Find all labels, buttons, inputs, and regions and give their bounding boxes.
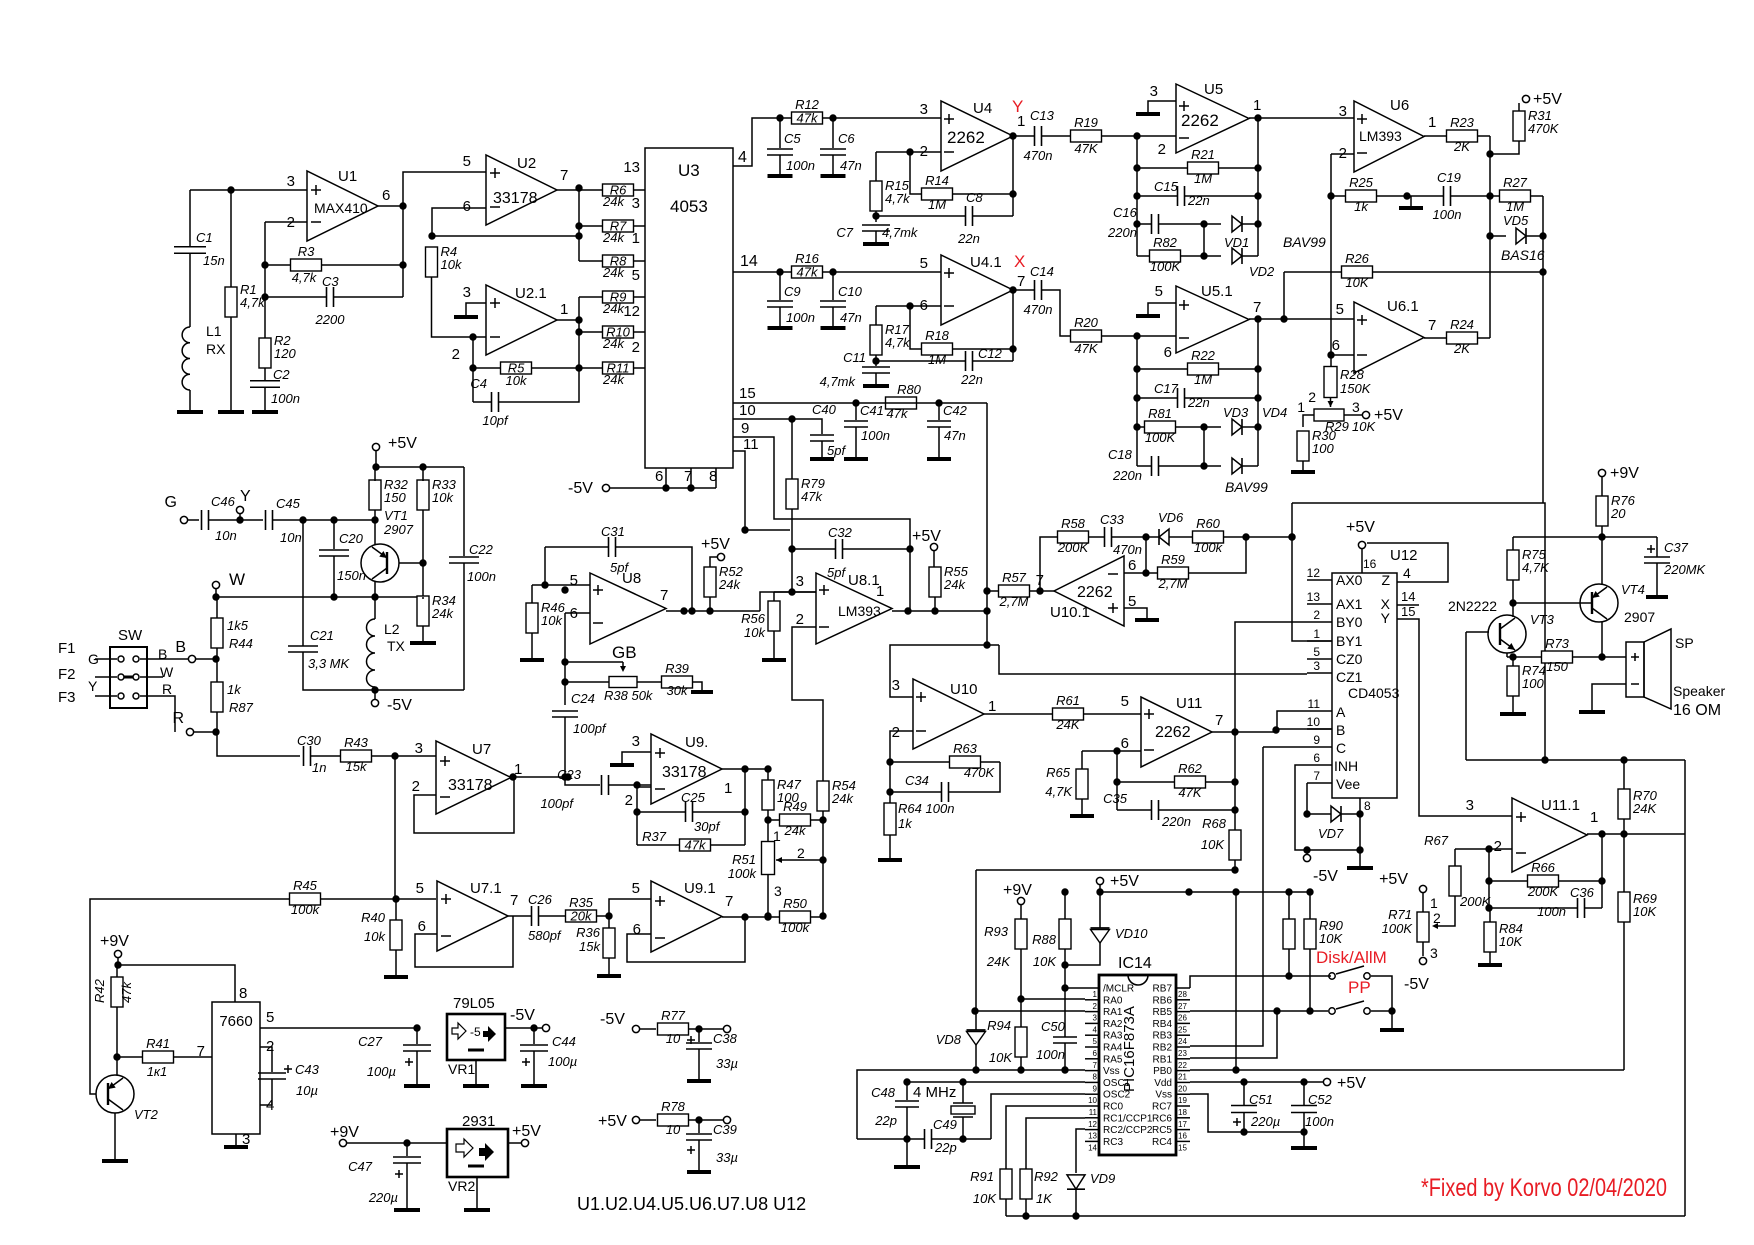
svg-text:5pf: 5pf	[827, 565, 846, 580]
resistor R39	[662, 676, 693, 688]
svg-text:580pf: 580pf	[528, 928, 562, 943]
op-amp U4 2262	[941, 101, 1013, 171]
resistor R36	[603, 928, 615, 958]
svg-text:7: 7	[1253, 299, 1261, 316]
op-amp U5.1 2262	[1176, 286, 1249, 353]
capacitor C44	[533, 1028, 535, 1044]
capacitor C32	[835, 539, 837, 559]
svg-text:R27: R27	[1503, 175, 1528, 190]
svg-text:C6: C6	[838, 131, 855, 146]
svg-text:VD3: VD3	[1223, 405, 1249, 420]
resistor R4	[426, 247, 438, 277]
svg-text:2931: 2931	[462, 1113, 495, 1130]
svg-text:24K: 24K	[1632, 801, 1657, 816]
wire Y pin to U11.1	[1397, 619, 1512, 816]
svg-text:C34: C34	[905, 773, 929, 788]
svg-text:1k: 1k	[227, 682, 242, 697]
svg-text:+5V: +5V	[598, 1113, 627, 1130]
capacitor C38	[698, 1029, 700, 1042]
svg-text:2: 2	[892, 724, 900, 741]
resistor R33	[417, 480, 429, 510]
svg-text:47K: 47K	[1074, 341, 1098, 356]
svg-text:16 OM: 16 OM	[1673, 702, 1721, 719]
transistor VT2	[96, 1075, 134, 1113]
svg-text:U2: U2	[517, 155, 536, 172]
svg-text:3: 3	[1466, 797, 1474, 814]
resistor R42	[111, 977, 123, 1007]
wire +5V row	[976, 869, 1235, 871]
voltage regulator VR1 79L05	[447, 1014, 505, 1060]
resistor R11	[603, 362, 634, 374]
svg-text:R65: R65	[1046, 765, 1071, 780]
svg-text:47K: 47K	[1074, 141, 1098, 156]
switch SW	[110, 647, 147, 708]
svg-text:+9V: +9V	[330, 1124, 359, 1141]
capacitor C5	[779, 118, 781, 148]
svg-text:C23: C23	[557, 767, 582, 782]
resistor R22	[1188, 363, 1219, 375]
wire U1 pin2	[265, 221, 307, 223]
svg-text:U11: U11	[1176, 695, 1202, 712]
svg-text:W: W	[229, 570, 245, 589]
svg-text:U8: U8	[622, 570, 641, 587]
svg-text:CZ1: CZ1	[1336, 669, 1363, 685]
svg-text:Y: Y	[88, 678, 98, 694]
svg-text:+5V: +5V	[1379, 871, 1408, 888]
resistor R92	[1020, 1169, 1032, 1199]
svg-text:7: 7	[1017, 273, 1025, 290]
ground at U2.1 pin3	[466, 303, 486, 315]
svg-text:AX1: AX1	[1336, 596, 1363, 612]
svg-text:X: X	[1014, 252, 1025, 271]
svg-text:16: 16	[1178, 1132, 1187, 1141]
svg-text:20: 20	[1178, 1084, 1187, 1093]
svg-text:13: 13	[623, 159, 640, 176]
wire RC2 to VD9	[1076, 1129, 1085, 1173]
svg-text:R: R	[162, 681, 172, 697]
svg-text:R14: R14	[925, 173, 949, 188]
svg-text:100k: 100k	[728, 866, 758, 881]
svg-text:1M: 1M	[1506, 199, 1524, 214]
svg-text:U6: U6	[1390, 97, 1409, 114]
capacitor C1	[189, 190, 191, 247]
svg-text:RX: RX	[206, 341, 226, 357]
op-amp U9 33178	[651, 734, 722, 804]
svg-text:6: 6	[1332, 337, 1340, 354]
resistor R78	[658, 1114, 689, 1126]
svg-text:21: 21	[1178, 1073, 1187, 1082]
svg-text:RC6: RC6	[1152, 1113, 1172, 1124]
svg-text:24k: 24k	[602, 372, 625, 387]
resistor R27	[1500, 190, 1531, 202]
svg-text:VD6: VD6	[1158, 510, 1184, 525]
svg-text:C14: C14	[1030, 264, 1054, 279]
power +9V R76	[1598, 469, 1605, 476]
svg-text:3: 3	[774, 883, 782, 899]
svg-text:3: 3	[463, 284, 471, 301]
svg-text:MAX410: MAX410	[314, 200, 368, 216]
resistor R41	[143, 1051, 174, 1063]
svg-text:15k: 15k	[346, 759, 368, 774]
svg-text:3: 3	[632, 195, 640, 212]
svg-text:15: 15	[1178, 1143, 1187, 1152]
op-amp U10	[913, 679, 984, 749]
wire RX input top	[190, 189, 307, 191]
svg-text:12: 12	[1088, 1120, 1097, 1129]
svg-text:26: 26	[1178, 1014, 1187, 1023]
svg-text:R50: R50	[783, 896, 808, 911]
svg-text:100n: 100n	[861, 428, 890, 443]
wire R45 left	[90, 899, 290, 1094]
svg-text:100pf: 100pf	[573, 721, 607, 736]
svg-text:17: 17	[1178, 1120, 1187, 1129]
svg-text:RC3: RC3	[1103, 1137, 1123, 1148]
resistor R57	[999, 585, 1030, 597]
svg-text:47k: 47k	[119, 981, 134, 1003]
svg-text:470K: 470K	[1528, 121, 1560, 136]
resistor R6	[603, 184, 634, 196]
svg-text:U1: U1	[338, 168, 357, 185]
svg-text:9: 9	[741, 420, 749, 437]
svg-text:24: 24	[1178, 1037, 1187, 1046]
resistor R19	[1071, 130, 1102, 142]
svg-text:30k: 30k	[667, 683, 689, 698]
svg-text:470K: 470K	[964, 765, 996, 780]
wire U2.1 output node	[557, 319, 579, 321]
svg-text:R64: R64	[898, 801, 922, 816]
svg-text:7: 7	[197, 1043, 205, 1060]
wire VT4 base	[1513, 602, 1592, 604]
svg-text:6: 6	[1313, 751, 1320, 765]
svg-text:5: 5	[266, 1009, 274, 1026]
svg-text:RC7: RC7	[1152, 1102, 1172, 1113]
capacitor C27	[413, 1024, 420, 1031]
svg-text:C24: C24	[571, 691, 595, 706]
op-amp U10.1 2262 (mirrored)	[1054, 556, 1124, 626]
svg-text:1: 1	[560, 301, 568, 318]
svg-text:C37: C37	[1664, 540, 1689, 555]
wire RC0 to R91	[1006, 1106, 1085, 1169]
resistor R17	[870, 325, 882, 355]
svg-text:10n: 10n	[280, 530, 302, 545]
svg-text:5: 5	[1093, 1037, 1098, 1046]
svg-text:+5V: +5V	[1110, 873, 1139, 890]
wire RB5 row	[1190, 1010, 1310, 1012]
svg-text:Disk/AllM: Disk/AllM	[1316, 948, 1387, 967]
svg-text:100k: 100k	[1194, 540, 1224, 555]
svg-text:8: 8	[1093, 1073, 1098, 1082]
IC U12 CD4053	[1332, 573, 1397, 798]
svg-text:7: 7	[1428, 317, 1436, 334]
svg-text:C47: C47	[348, 1159, 373, 1174]
svg-text:Y: Y	[1012, 97, 1023, 116]
svg-text:6: 6	[1121, 735, 1129, 752]
svg-text:2: 2	[1313, 608, 1320, 622]
resistor R84	[1484, 922, 1496, 952]
svg-text:24K: 24K	[986, 954, 1011, 969]
svg-text:A: A	[1336, 704, 1346, 720]
resistor R58	[1058, 531, 1089, 543]
svg-text:24k: 24k	[431, 606, 454, 621]
svg-text:10: 10	[666, 1031, 681, 1046]
op-amp U6 LM393	[1354, 101, 1424, 172]
capacitor C14	[1013, 289, 1034, 291]
resistor R10	[603, 326, 634, 338]
svg-text:U12: U12	[1390, 547, 1418, 564]
wire MCLR	[1064, 949, 1066, 988]
svg-text:2: 2	[1093, 1002, 1098, 1011]
svg-text:R66: R66	[1531, 860, 1556, 875]
capacitor C12	[965, 351, 967, 371]
diode VD4	[1232, 458, 1242, 474]
svg-text:C21: C21	[310, 628, 334, 643]
svg-text:33µ: 33µ	[716, 1150, 738, 1165]
svg-text:47n: 47n	[944, 428, 966, 443]
svg-text:6: 6	[633, 921, 641, 938]
svg-text:33178: 33178	[662, 764, 707, 781]
resistor R50	[780, 911, 811, 923]
capacitor C46	[188, 519, 199, 521]
svg-text:10k: 10k	[744, 625, 766, 640]
capacitor C19	[1443, 186, 1445, 206]
svg-text:3: 3	[1339, 103, 1347, 120]
wire U11.1 out	[1587, 833, 1685, 835]
vertical U5.1 left	[1136, 336, 1138, 466]
U3 pin 10 wire	[733, 418, 792, 420]
svg-text:R28: R28	[1340, 367, 1365, 382]
svg-text:SW: SW	[118, 627, 143, 644]
svg-text:470n: 470n	[1024, 148, 1053, 163]
svg-text:RC4: RC4	[1152, 1137, 1172, 1148]
wire VR2 out +5V	[508, 1142, 521, 1144]
svg-text:R78: R78	[661, 1099, 686, 1114]
svg-text:R44: R44	[229, 636, 253, 651]
capacitor C47	[406, 1143, 408, 1156]
svg-text:RB1: RB1	[1153, 1054, 1173, 1065]
svg-text:-5: -5	[470, 1025, 481, 1039]
svg-text:3: 3	[920, 101, 928, 118]
svg-text:30pf: 30pf	[694, 819, 721, 834]
svg-text:1: 1	[1313, 627, 1320, 641]
wire right vertical	[1542, 196, 1544, 503]
svg-text:C10: C10	[838, 284, 863, 299]
op-amp U9.1	[651, 881, 722, 952]
svg-text:4: 4	[1403, 565, 1411, 581]
resistor R81	[1145, 421, 1176, 433]
svg-text:R3: R3	[298, 244, 315, 259]
svg-text:C39: C39	[713, 1122, 737, 1137]
svg-text:2262: 2262	[1077, 584, 1113, 601]
svg-text:2: 2	[1433, 910, 1441, 926]
svg-text:U3: U3	[678, 161, 700, 180]
svg-text:C46: C46	[211, 494, 236, 509]
svg-text:2262: 2262	[1181, 111, 1219, 130]
svg-text:RB3: RB3	[1153, 1031, 1173, 1042]
svg-text:24k: 24k	[602, 301, 625, 316]
svg-text:U8.1: U8.1	[848, 572, 880, 589]
svg-text:7: 7	[725, 893, 733, 910]
diode VD5 BAS16	[1516, 228, 1526, 244]
svg-text:1: 1	[876, 583, 884, 600]
resistor R32	[369, 480, 381, 510]
wire U10 out	[984, 713, 1052, 715]
wire U4 pin2	[876, 151, 941, 153]
svg-text:LM393: LM393	[1359, 128, 1402, 144]
svg-text:24k: 24k	[784, 823, 807, 838]
capacitor C2	[264, 368, 266, 381]
svg-text:Y: Y	[1381, 610, 1391, 626]
svg-text:100n: 100n	[1537, 904, 1566, 919]
resistor R24	[1447, 332, 1478, 344]
op-amp U11.1	[1512, 798, 1587, 872]
svg-text:47n: 47n	[840, 310, 862, 325]
capacitor C34	[941, 782, 943, 802]
svg-text:C11: C11	[843, 350, 866, 365]
svg-text:9: 9	[1093, 1084, 1098, 1093]
svg-text:47n: 47n	[840, 158, 862, 173]
wire U6 pin2	[1331, 153, 1354, 155]
svg-text:18: 18	[1178, 1108, 1187, 1117]
svg-text:VR1: VR1	[448, 1061, 475, 1077]
capacitor C26	[531, 906, 533, 926]
transistor VT1	[361, 544, 399, 582]
wire X pin stub	[1397, 604, 1419, 606]
svg-text:C38: C38	[713, 1031, 738, 1046]
svg-text:RA4: RA4	[1103, 1043, 1123, 1054]
svg-text:8: 8	[239, 985, 247, 1002]
svg-text:LM393: LM393	[838, 603, 881, 619]
capacitor C13	[1013, 135, 1034, 137]
resistor R90	[1304, 919, 1316, 949]
resistor R37	[680, 839, 711, 851]
svg-text:VT2: VT2	[134, 1107, 159, 1122]
capacitor C20	[333, 520, 335, 549]
diode VD3	[1232, 419, 1242, 435]
svg-text:47k: 47k	[801, 489, 823, 504]
resistor R30	[1303, 415, 1314, 427]
svg-text:15k: 15k	[579, 939, 601, 954]
svg-text:10: 10	[1088, 1096, 1097, 1105]
capacitor C45	[265, 510, 267, 530]
svg-text:33178: 33178	[493, 190, 538, 207]
svg-text:10k: 10k	[432, 490, 454, 505]
svg-text:5: 5	[1121, 693, 1129, 710]
resistor R14	[922, 188, 953, 200]
svg-text:100n: 100n	[467, 569, 496, 584]
capacitor C24	[552, 710, 578, 712]
wire bottom rail	[1006, 1215, 1685, 1217]
svg-text:220µ: 220µ	[1250, 1114, 1280, 1129]
svg-text:2262: 2262	[1155, 724, 1191, 741]
svg-text:C26: C26	[528, 892, 553, 907]
capacitor C9	[779, 272, 781, 300]
inductor L1 RX	[189, 253, 191, 327]
capacitor C15	[1177, 186, 1179, 206]
svg-text:220n: 220n	[1112, 468, 1142, 483]
svg-text:6: 6	[1093, 1049, 1098, 1058]
ground at U5 pin3	[1148, 101, 1176, 112]
svg-text:-5V: -5V	[568, 480, 593, 497]
svg-text:3: 3	[242, 1131, 250, 1148]
wire VT3 emitter	[1506, 653, 1508, 657]
svg-text:10pf: 10pf	[482, 413, 509, 428]
svg-text:R45: R45	[293, 878, 318, 893]
svg-text:VD4: VD4	[1262, 405, 1287, 420]
svg-text:25: 25	[1178, 1025, 1187, 1034]
svg-text:U9.1: U9.1	[684, 880, 716, 897]
wire long vertical 976	[975, 870, 977, 1011]
svg-text:C25: C25	[681, 790, 706, 805]
svg-text:VT1: VT1	[384, 508, 408, 523]
svg-text:C41: C41	[860, 403, 884, 418]
svg-text:2,7M: 2,7M	[1158, 576, 1188, 591]
svg-text:22n: 22n	[957, 231, 980, 246]
resistor R21	[1188, 162, 1219, 174]
resistor R3	[291, 259, 322, 271]
svg-text:100n: 100n	[1433, 207, 1462, 222]
resistor R12	[792, 112, 823, 124]
svg-text:U1.U2.U4.U5.U6.U7.U8 U12: U1.U2.U4.U5.U6.U7.U8 U12	[577, 1194, 806, 1214]
svg-text:RA0: RA0	[1103, 995, 1123, 1006]
svg-text:13: 13	[1088, 1132, 1097, 1141]
svg-text:470n: 470n	[1024, 302, 1053, 317]
terminal B	[188, 655, 195, 662]
svg-text:1n: 1n	[312, 760, 326, 775]
svg-text:R57: R57	[1002, 570, 1027, 585]
svg-text:10: 10	[1307, 715, 1321, 729]
wire U8.1 pin3	[774, 591, 816, 593]
svg-text:U2.1: U2.1	[515, 285, 547, 302]
svg-text:R56: R56	[741, 611, 766, 626]
svg-text:100k: 100k	[291, 902, 321, 917]
svg-text:10k: 10k	[506, 373, 528, 388]
svg-text:24k: 24k	[602, 194, 625, 209]
svg-text:2907: 2907	[1624, 609, 1655, 625]
resistor R40	[390, 920, 402, 950]
svg-text:100: 100	[1522, 676, 1544, 691]
op-amp U1 MAX410	[307, 171, 378, 241]
resistor R87	[211, 682, 223, 712]
7660 pin5 wire	[260, 1027, 417, 1029]
svg-text:10K: 10K	[1499, 934, 1523, 949]
svg-text:RA3: RA3	[1103, 1031, 1123, 1042]
resistor R68	[1234, 732, 1236, 830]
svg-text:10K: 10K	[1352, 419, 1376, 434]
svg-text:10k: 10k	[541, 613, 563, 628]
svg-text:U10: U10	[950, 681, 978, 698]
capacitor C7	[862, 224, 890, 226]
svg-text:B: B	[1336, 722, 1345, 738]
svg-text:1: 1	[1093, 990, 1098, 999]
svg-text:U4.1: U4.1	[970, 254, 1002, 271]
resistor R26	[1342, 266, 1373, 278]
svg-text:R77: R77	[661, 1008, 686, 1023]
capacitor C16	[1151, 214, 1153, 234]
wire speaker minus to ground	[1592, 684, 1626, 710]
wire C pin	[1263, 746, 1307, 748]
svg-text:150K: 150K	[1340, 381, 1372, 396]
U3 pin 15 wire	[733, 402, 887, 404]
capacitor C21	[288, 645, 318, 647]
svg-text:INH: INH	[1334, 758, 1358, 774]
svg-text:10K: 10K	[1319, 931, 1343, 946]
svg-text:100n: 100n	[926, 801, 955, 816]
transistor VT3 2N2222	[1488, 615, 1526, 653]
svg-text:C9: C9	[784, 284, 801, 299]
svg-text:10K: 10K	[1033, 954, 1057, 969]
wire R35 junction to U9.1 pin5	[609, 899, 651, 916]
svg-text:C17: C17	[1154, 381, 1179, 396]
